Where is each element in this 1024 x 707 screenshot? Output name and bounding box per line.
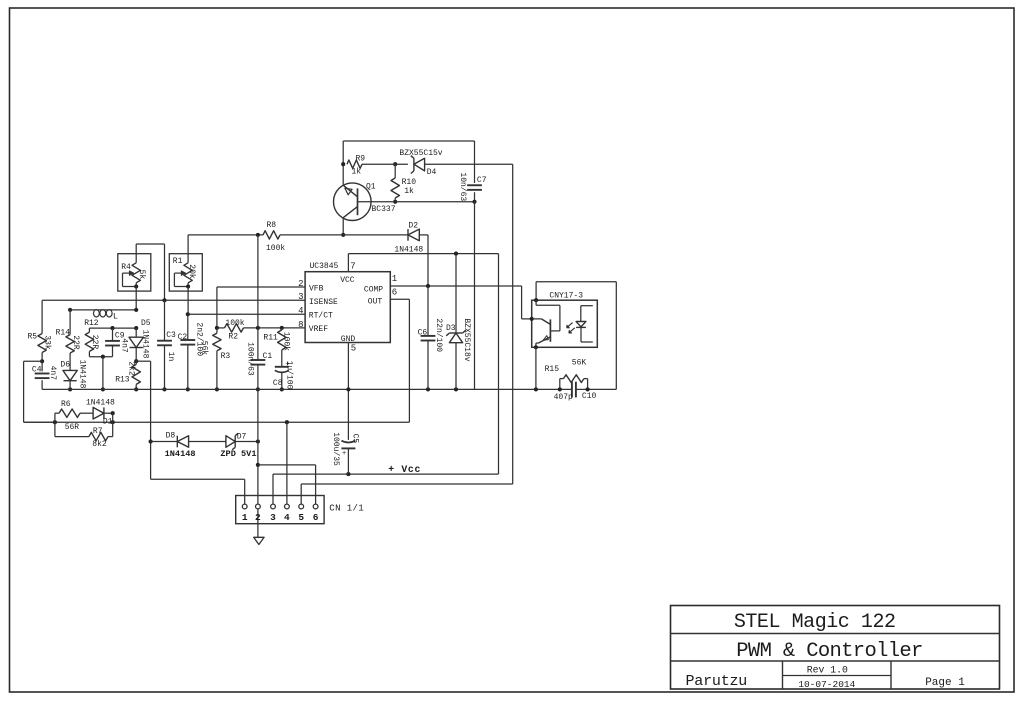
pin 3 of connector CN 1/1 — [271, 504, 276, 509]
node junction R11 top on VREF wire — [280, 326, 284, 330]
wire ground bus — [42, 388, 572, 390]
svg-text:OUT: OUT — [368, 297, 383, 306]
diode D2 1N4148 — [407, 229, 409, 241]
node junction inductor L / R14 top — [68, 308, 72, 312]
wire bottom rail down to ground bus — [102, 357, 104, 390]
svg-text:R1: R1 — [173, 257, 183, 266]
svg-text:Parutzu: Parutzu — [686, 673, 748, 690]
svg-text:C10: C10 — [582, 392, 597, 401]
svg-text:+: + — [342, 450, 346, 458]
node junction C5 bottom on +Vcc rail — [346, 472, 350, 476]
trimmer potentiometer R1 20k — [169, 254, 202, 291]
svg-text:R12: R12 — [84, 319, 99, 328]
svg-text:PWM & Controller: PWM & Controller — [736, 640, 922, 663]
svg-text:D8: D8 — [166, 432, 176, 441]
svg-text:6: 6 — [313, 512, 319, 523]
wire from R5/C4 node to R6/R7 group — [24, 360, 42, 362]
svg-text:1k: 1k — [404, 187, 414, 196]
svg-text:R10: R10 — [402, 178, 417, 187]
svg-text:Page 1: Page 1 — [925, 677, 965, 689]
wire outer loop around optocoupler top — [536, 281, 616, 283]
svg-text:D4: D4 — [427, 168, 437, 177]
svg-text:3: 3 — [270, 512, 276, 523]
node junction RT/CT / C2 top — [186, 312, 190, 316]
wire connector pin 5 feed rail — [300, 484, 302, 504]
resistor R7 8k2 — [54, 422, 56, 436]
svg-text:R3: R3 — [221, 352, 231, 361]
svg-text:R14: R14 — [56, 329, 71, 338]
pin 1 of connector CN 1/1 — [242, 504, 247, 509]
resistor R14 22R — [69, 310, 71, 335]
svg-text:R9: R9 — [356, 155, 366, 164]
svg-text:6: 6 — [392, 287, 397, 297]
wire x258 net from R8 down to VREF — [257, 235, 259, 328]
svg-text:Rev 1.0: Rev 1.0 — [807, 665, 848, 676]
wire R8 to D2 — [280, 234, 408, 236]
svg-text:33k: 33k — [43, 335, 52, 350]
zener diode D7 ZPD 5V1 — [226, 436, 235, 448]
node junction D3 on bus — [454, 387, 458, 391]
svg-text:R7: R7 — [93, 427, 103, 436]
svg-text:Q1: Q1 — [366, 182, 376, 191]
svg-text:C4: C4 — [32, 365, 42, 374]
svg-text:100k: 100k — [225, 319, 244, 328]
wire pin 6 jog — [258, 464, 316, 466]
svg-text:R4: R4 — [121, 263, 131, 272]
svg-text:1N4148: 1N4148 — [165, 449, 196, 459]
node junction R15 left on bus — [558, 387, 562, 391]
wire pin 1 COMP to optocoupler — [390, 285, 521, 287]
node junction D7 on ground net — [256, 439, 260, 443]
node junction C3/R4-frame on ISENSE rail — [162, 298, 166, 302]
node junction top rail on D5 net — [134, 326, 138, 330]
node junction inductor right on R4 net — [134, 308, 138, 312]
svg-text:BZX55C15v: BZX55C15v — [399, 149, 442, 158]
svg-text:5: 5 — [298, 512, 304, 523]
node junction C3 bottom on ground bus — [162, 387, 166, 391]
svg-text:R15: R15 — [545, 365, 560, 374]
svg-text:D3: D3 — [446, 324, 456, 333]
title block row dividers — [671, 633, 1000, 635]
svg-text:L: L — [113, 312, 118, 322]
wire ground net below bus to connector pin 2 — [257, 389, 259, 504]
wire pin 3 ISENSE long rail — [42, 299, 305, 301]
svg-text:1: 1 — [392, 274, 397, 284]
resistor R15 56K — [559, 379, 561, 390]
wire R12/C9 bottom rail — [89, 356, 112, 358]
svg-text:22R: 22R — [71, 335, 80, 350]
svg-text:RT/CT: RT/CT — [309, 311, 333, 320]
node junction C1 bottom on ground bus — [256, 387, 260, 391]
wire COMP corner down — [521, 286, 523, 319]
wire R4 wiper down to inductor node — [135, 287, 137, 310]
svg-text:1N4148: 1N4148 — [77, 360, 86, 389]
svg-text:D2: D2 — [408, 221, 418, 230]
svg-text:22n/100: 22n/100 — [434, 318, 443, 352]
wire R12/C9 top rail — [89, 327, 136, 329]
capacitor C8 1u/100 electrolytic — [281, 350, 283, 367]
node junction R3 bottom on ground bus — [215, 387, 219, 391]
svg-text:5k: 5k — [137, 270, 146, 280]
diode D1 1N4148 — [103, 407, 105, 419]
transistor Q1 BC337 — [334, 183, 372, 221]
svg-text:C8: C8 — [273, 379, 283, 388]
node junction R13 bottom on ground bus — [134, 387, 138, 391]
diode D5 1N4148 — [135, 328, 137, 337]
svg-text:ISENSE: ISENSE — [309, 298, 338, 307]
wire pin 4 RT/CT — [188, 313, 305, 315]
node junction D3 top on VCC wire — [454, 252, 458, 256]
svg-text:R11: R11 — [263, 333, 278, 342]
opto phototransistor emitter with arrow — [538, 337, 550, 343]
node junction x258 on R8 wire — [256, 233, 260, 237]
svg-text:10-07-2014: 10-07-2014 — [798, 679, 855, 690]
svg-text:56K: 56K — [572, 359, 587, 368]
opto phototransistor base bar — [549, 319, 551, 341]
svg-text:5: 5 — [351, 343, 356, 353]
svg-text:R2: R2 — [228, 332, 238, 341]
node junction C7 bottom — [472, 200, 476, 204]
title block column dividers — [782, 661, 784, 689]
svg-text:56R: 56R — [65, 423, 80, 432]
svg-text:BC337: BC337 — [372, 205, 396, 214]
resistor R10 — [394, 164, 396, 178]
capacitor C9 4n7 — [112, 328, 114, 341]
diode D8 1N4148 — [176, 436, 178, 448]
wire pin5 net vertical x512 — [512, 164, 514, 484]
svg-text:D5: D5 — [141, 319, 151, 328]
svg-text:C1: C1 — [263, 352, 273, 361]
svg-text:100n/63: 100n/63 — [246, 342, 255, 376]
node junction C1 top on VREF wire — [256, 326, 260, 330]
wire connector pin 4 feed — [286, 422, 288, 504]
svg-text:VCC: VCC — [340, 276, 355, 285]
trimmer potentiometer R4 5k — [118, 254, 151, 291]
resistor R5 33k — [41, 300, 43, 333]
optocoupler U2 CNY17-3 body — [532, 300, 598, 347]
svg-text:R5: R5 — [28, 333, 38, 342]
opto base wire from COMP — [522, 318, 542, 320]
wire C7 bottom down to ground bus — [474, 202, 476, 390]
op-amp U1 UC3845 PWM controller IC body — [305, 272, 390, 343]
svg-text:7: 7 — [350, 262, 355, 272]
svg-text:22R: 22R — [90, 335, 99, 350]
pin 6 of connector CN 1/1 — [313, 504, 318, 509]
wire D4 anode to pin5-net corner — [425, 163, 513, 165]
svg-text:1N4148: 1N4148 — [141, 330, 150, 359]
wire D5/R13 node to connector pin 1 net — [136, 360, 150, 362]
svg-text:100k: 100k — [266, 244, 285, 253]
resistor R9 — [347, 160, 362, 168]
capacitor C3 1n — [164, 300, 166, 340]
node junction opto emitter pin on box bottom — [534, 345, 538, 349]
node junction C6 on bus — [426, 387, 430, 391]
node junction VREF/R2/R3/pin2 net — [215, 326, 219, 330]
svg-text:56k: 56k — [199, 341, 208, 356]
node junction D6 bottom on ground bus — [68, 387, 72, 391]
node junction bottom rail to bus — [101, 355, 105, 359]
svg-text:8k2: 8k2 — [92, 440, 107, 449]
wire R4 frame to ISENSE rail — [136, 243, 164, 245]
capacitor C5 100u/35 electrolytic — [341, 441, 355, 443]
diode D6 1N4148 — [69, 353, 71, 370]
svg-text:10n/63: 10n/63 — [458, 172, 467, 201]
wire vertical emitter junction x343 — [342, 141, 344, 185]
capacitor C2 2n2/100 — [187, 314, 189, 340]
node junction D2/C6 on COMP wire — [426, 284, 430, 288]
wire D2 anode to COMP net — [419, 234, 428, 236]
resistor R3 56k — [216, 328, 218, 333]
zener diode D4 BZX55C15v — [413, 158, 415, 171]
node junction R9-left / Q1 emitter — [341, 162, 345, 166]
pin 2 of connector CN 1/1 — [256, 504, 261, 509]
node junction R6/R7 left — [53, 420, 57, 424]
svg-text:C3: C3 — [166, 331, 176, 340]
svg-text:4n7: 4n7 — [48, 366, 57, 381]
wire OUT rail y422 — [24, 421, 410, 423]
wire pin 8 VREF with resistor R2 100k — [217, 327, 225, 329]
capacitor C1 100n/63 — [257, 328, 259, 360]
svg-text:+ Vcc: + Vcc — [388, 464, 421, 475]
resistor R13 2k2 — [135, 361, 137, 364]
node junction C9 top — [110, 326, 114, 330]
svg-text:CN 1/1: CN 1/1 — [329, 503, 364, 513]
svg-text:2: 2 — [255, 512, 261, 523]
svg-text:R6: R6 — [61, 400, 71, 409]
pin 4 of connector CN 1/1 — [285, 504, 290, 509]
wire opto emitter to ground bus — [535, 347, 537, 389]
svg-text:C7: C7 — [477, 176, 487, 185]
wire VCC vertical down to +Vcc rail — [498, 254, 500, 475]
node junction on ground bus below C9 — [101, 387, 105, 391]
wire D7 to ground net x258 — [235, 441, 258, 443]
svg-text:BZX55C18v: BZX55C18v — [462, 318, 471, 361]
capacitor C4 4n7 — [41, 361, 43, 371]
node junction R10 top — [393, 162, 397, 166]
node junction C8 bottom on ground bus — [280, 387, 284, 391]
svg-text:VFB: VFB — [309, 285, 324, 294]
zener diode D3 BZX55C18v — [455, 254, 457, 333]
svg-text:D7: D7 — [237, 433, 247, 442]
svg-text:COMP: COMP — [364, 286, 383, 295]
svg-text:C5: C5 — [350, 434, 359, 444]
resistor R11 100k — [281, 328, 283, 330]
inductor L — [70, 309, 136, 311]
resistor R12 22R — [88, 328, 90, 332]
opto light arrows — [567, 323, 572, 328]
node junction connector pin 4 on OUT rail — [285, 420, 289, 424]
svg-text:1u/100: 1u/100 — [285, 361, 294, 390]
svg-text:D6: D6 — [60, 361, 70, 370]
svg-text:C6: C6 — [418, 328, 428, 337]
svg-text:2k2: 2k2 — [127, 361, 136, 376]
node junction GND pin net on bus — [346, 387, 350, 391]
ground symbol below connector pin 2 — [254, 537, 264, 544]
svg-text:100k: 100k — [282, 332, 291, 351]
svg-text:UC3845: UC3845 — [310, 262, 339, 271]
svg-text:100u/35: 100u/35 — [331, 432, 340, 466]
svg-text:C2: C2 — [178, 333, 188, 342]
svg-text:1n: 1n — [166, 352, 175, 362]
wire R9 to D4 — [390, 163, 408, 165]
node junction D8 wire on pin1 net — [149, 439, 153, 443]
opto phototransistor collector routing — [535, 300, 537, 305]
wire connector pin 1 feed — [151, 478, 245, 480]
wire D8 to D7 — [189, 441, 226, 443]
svg-text:20k: 20k — [187, 264, 196, 279]
node junction R5 bottom / C4 top — [40, 359, 44, 363]
node junction R6/R7 right — [111, 420, 115, 424]
node junction C2 bottom on ground bus — [186, 387, 190, 391]
wire pin 5 GND down through bus to C5 — [347, 343, 349, 440]
wire pin 2 through to ground symbol — [257, 504, 259, 537]
svg-text:ZPD 5V1: ZPD 5V1 — [220, 449, 256, 459]
svg-text:VREF: VREF — [309, 325, 328, 334]
connector CN 1/1 body — [236, 496, 324, 524]
node junction R15 right on bus — [586, 387, 590, 391]
svg-text:STEL Magic 122: STEL Magic 122 — [734, 611, 896, 634]
node junction pin6 jog on ground net — [256, 463, 260, 467]
svg-text:R8: R8 — [267, 221, 277, 230]
svg-text:1k: 1k — [352, 168, 362, 177]
svg-text:CNY17-3: CNY17-3 — [549, 291, 583, 300]
node junction opto collector pin on box top — [534, 298, 538, 302]
wire VCC from pin 7 to right side — [348, 253, 498, 255]
svg-text:407p: 407p — [554, 393, 573, 402]
wire R1 wiper down to RT/CT node — [187, 287, 189, 315]
pin 5 of connector CN 1/1 — [299, 504, 304, 509]
wire connector pin 3 feed / +Vcc rail — [272, 474, 274, 504]
resistor R6 56R — [54, 413, 56, 422]
svg-text:4n7: 4n7 — [120, 338, 129, 353]
wire top bridge from Q1 emitter junction to C7 top — [343, 140, 474, 142]
opto LED — [581, 305, 593, 307]
node junction R10 bottom / Q1 base wire — [393, 200, 397, 204]
svg-text:D1: D1 — [103, 418, 113, 427]
title block outer box — [671, 606, 1000, 690]
wire Q1 base to C7 bottom — [358, 201, 475, 203]
capacitor C6 22n/100 — [427, 286, 429, 336]
node junction Q1 lower lead on R8 wire — [341, 233, 345, 237]
wire pin 6 OUT — [390, 298, 409, 300]
wire to D8 — [151, 441, 178, 443]
wire R1-top corner to R8 — [188, 234, 263, 236]
resistor R8 100k — [263, 231, 280, 239]
node junction emitter net on bus — [534, 387, 538, 391]
node junction D5 bottom / R13 top — [134, 359, 138, 363]
svg-text:1N4148: 1N4148 — [86, 399, 115, 408]
svg-text:1: 1 — [242, 512, 248, 523]
capacitor C7 10n/63 — [474, 141, 476, 183]
capacitor C10 407p — [571, 382, 573, 398]
svg-text:4: 4 — [284, 512, 290, 523]
svg-text:R13: R13 — [115, 375, 130, 384]
wire pin 2 VFB — [217, 286, 305, 288]
